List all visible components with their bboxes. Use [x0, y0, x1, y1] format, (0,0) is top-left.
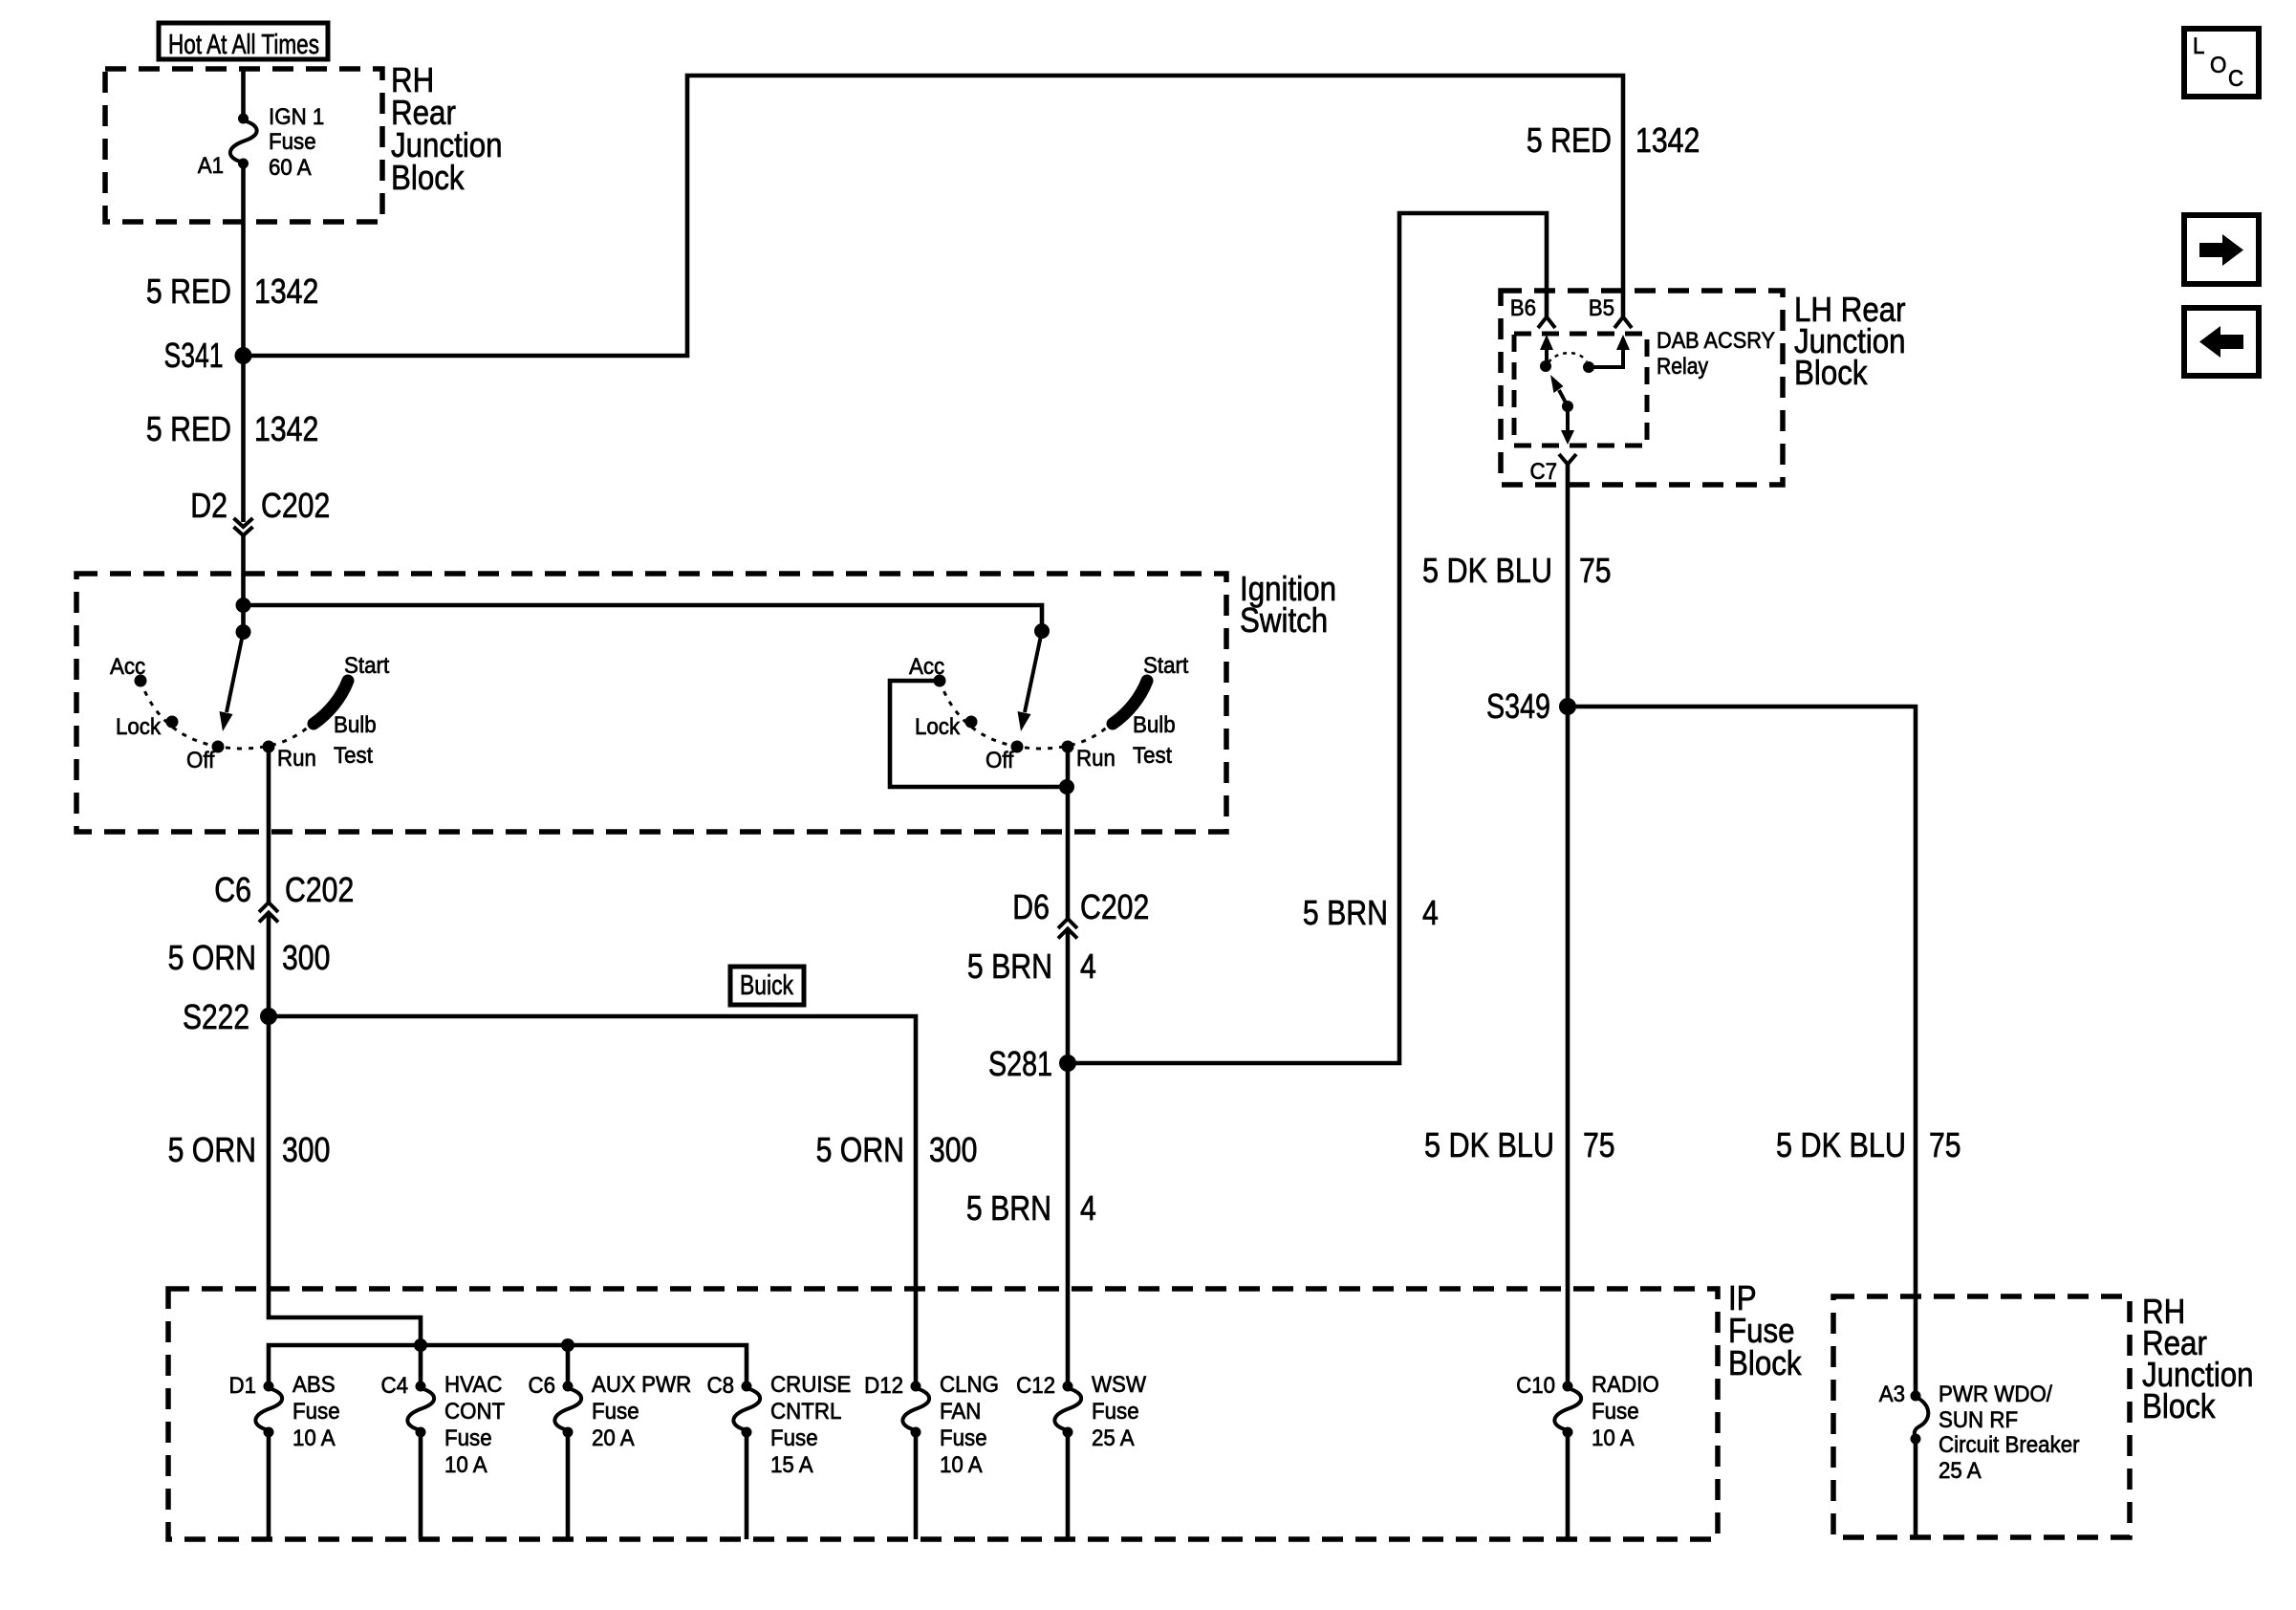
svg-text:10 A: 10 A: [292, 1425, 336, 1451]
svg-text:75: 75: [1583, 1125, 1615, 1164]
fuse C4 HVAC: [381, 1372, 506, 1478]
right switch rotary contact arc: [940, 681, 1116, 749]
wire: S349 down to fuse C10: [1566, 707, 1570, 1386]
svg-text:300: 300: [282, 938, 330, 977]
svg-text:C202: C202: [1080, 887, 1149, 926]
svg-text:4: 4: [1080, 1188, 1096, 1228]
svg-text:ABS: ABS: [292, 1372, 336, 1398]
label 5 DK BLU 75: [1422, 551, 1612, 590]
svg-text:5 DK BLU: 5 DK BLU: [1424, 1125, 1554, 1164]
svg-text:4: 4: [1422, 893, 1439, 932]
wire: battery feed into IGN 1 fuse: [241, 69, 246, 119]
wire: 5 DK BLU 75 from C7 to S349: [1566, 464, 1570, 707]
label 5 BRN 4 (second): [966, 1188, 1096, 1228]
svg-text:CONT: CONT: [444, 1399, 506, 1425]
svg-text:S281: S281: [988, 1044, 1052, 1083]
svg-text:300: 300: [929, 1130, 977, 1169]
left switch contact Acc: [135, 675, 147, 687]
relay NO contact: [1583, 361, 1594, 373]
relay pin arrow B5 into relay: [1616, 335, 1630, 350]
node: Acc/Run junction: [1059, 779, 1074, 794]
svg-text:5 ORN: 5 ORN: [816, 1130, 904, 1169]
relay contact travel arc: [1549, 353, 1587, 362]
svg-text:Circuit Breaker: Circuit Breaker: [1939, 1432, 2080, 1458]
wire: S222 Buick branch to fuse D12: [269, 1016, 916, 1386]
svg-text:Fuse: Fuse: [1592, 1399, 1639, 1425]
svg-text:SUN RF: SUN RF: [1939, 1407, 2018, 1433]
svg-text:Block: Block: [2142, 1386, 2216, 1425]
svg-text:C4: C4: [381, 1373, 409, 1399]
svg-text:CRUISE: CRUISE: [770, 1372, 851, 1398]
svg-text:300: 300: [282, 1130, 330, 1169]
svg-text:10 A: 10 A: [940, 1452, 983, 1478]
left switch contact Run: [263, 741, 275, 753]
svg-text:1342: 1342: [254, 409, 318, 448]
wire: S281 up to relay pin B6: [1068, 213, 1547, 1063]
svg-text:B6: B6: [1510, 295, 1536, 321]
wire: D2 into ignition switch: [241, 535, 246, 632]
svg-text:Test: Test: [334, 743, 373, 769]
node S222: [183, 997, 277, 1036]
svg-text:S222: S222: [183, 997, 249, 1036]
node: left switch wiper pivot: [236, 624, 251, 640]
label 5 DK BLU 75 (second): [1424, 1125, 1615, 1164]
left switch contact Off: [212, 741, 225, 753]
svg-text:5 RED: 5 RED: [1527, 120, 1612, 160]
svg-text:S349: S349: [1486, 686, 1550, 726]
wire: 5 RED 1342 S341 down to connector D2: [241, 356, 246, 522]
svg-text:25 A: 25 A: [1092, 1425, 1135, 1451]
wire: fuse C12 output: [1066, 1432, 1071, 1539]
svg-text:Fuse: Fuse: [444, 1425, 492, 1451]
svg-text:FAN: FAN: [940, 1399, 981, 1425]
svg-text:15 A: 15 A: [770, 1452, 813, 1478]
left switch wiper arrow: [227, 632, 244, 712]
svg-text:1342: 1342: [1635, 120, 1700, 160]
svg-text:CLNG: CLNG: [940, 1372, 999, 1398]
relay output arrow to C7: [1566, 406, 1570, 431]
svg-text:75: 75: [1579, 551, 1612, 590]
fuse feed bus: [269, 1345, 747, 1386]
svg-text:10 A: 10 A: [444, 1452, 487, 1478]
wire: fuse C10 output: [1566, 1432, 1570, 1539]
label 5 DK BLU 75 (right branch): [1776, 1125, 1961, 1164]
fuse IGN 1 60 A (pin A1): [198, 104, 325, 181]
svg-text:Block: Block: [1794, 353, 1868, 392]
relay DAB ACSRY (inner box): [1514, 328, 1775, 446]
label 5 ORN 300 (second): [168, 1130, 331, 1169]
svg-text:Fuse: Fuse: [292, 1399, 340, 1425]
label 5 RED 1342 (top right): [1527, 120, 1700, 160]
wire: 5 RED 1342 fuse A1 down to S341: [241, 163, 246, 356]
right switch wiper arrow: [1025, 631, 1042, 712]
arrow-right icon: [2184, 215, 2259, 284]
svg-text:Start: Start: [344, 653, 390, 679]
svg-text:Lock: Lock: [915, 714, 961, 740]
svg-text:Hot At All Times: Hot At All Times: [168, 30, 319, 60]
svg-text:1342: 1342: [254, 272, 318, 311]
svg-text:D1: D1: [229, 1373, 257, 1399]
label 5 BRN 4: [967, 946, 1096, 986]
svg-text:C6: C6: [529, 1373, 556, 1399]
wire: S222 down into IP fuse block: [269, 1016, 421, 1345]
wire: S349 branch to circuit breaker A3: [1568, 707, 1916, 1396]
svg-text:S341: S341: [164, 336, 224, 375]
wire: left switch Run output down to connector C6: [267, 747, 271, 903]
right switch feed junction: [1034, 623, 1050, 639]
right switch contact Acc: [934, 675, 946, 687]
wire: 5 ORN 300 from C6 to S222: [267, 913, 271, 1016]
svg-text:Run: Run: [1076, 746, 1116, 772]
connector C202 pin D6: [1012, 887, 1149, 939]
wire: fuse C8 output: [745, 1432, 749, 1539]
svg-text:Block: Block: [391, 158, 465, 197]
svg-text:D2: D2: [190, 486, 227, 525]
right switch Start / Bulb Test contact arc: [1113, 681, 1147, 724]
left switch rotary contact arc: [141, 681, 317, 749]
wire: fuse C4 output: [419, 1432, 423, 1539]
svg-text:Test: Test: [1133, 743, 1172, 769]
wire: breaker A3 output: [1914, 1439, 1918, 1537]
Ignition Switch block: [76, 569, 1336, 832]
svg-text:Bulb: Bulb: [1133, 712, 1176, 738]
svg-text:5 BRN: 5 BRN: [1303, 893, 1388, 932]
bus junction at C6: [561, 1338, 574, 1352]
svg-text:D6: D6: [1012, 887, 1050, 926]
connector C202 pin D2: [190, 486, 330, 535]
relay pin arrow B6 into relay: [1540, 335, 1553, 350]
svg-text:Start: Start: [1143, 653, 1189, 679]
IP Fuse Block: [168, 1278, 1802, 1539]
svg-text:C202: C202: [261, 486, 330, 525]
svg-text:PWR WDO/: PWR WDO/: [1939, 1382, 2052, 1407]
svg-text:Lock: Lock: [116, 714, 162, 740]
wire: fuse C6 output: [566, 1432, 571, 1539]
fuse C6 AUX PWR: [529, 1372, 692, 1451]
svg-text:L: L: [2193, 33, 2204, 59]
svg-text:C12: C12: [1016, 1373, 1055, 1399]
svg-text:5 DK BLU: 5 DK BLU: [1776, 1125, 1906, 1164]
fuse C12 WSW: [1016, 1372, 1146, 1451]
fuse C8 CRUISE: [707, 1372, 852, 1478]
svg-text:5 DK BLU: 5 DK BLU: [1422, 551, 1552, 590]
svg-text:HVAC: HVAC: [444, 1372, 502, 1398]
svg-text:4: 4: [1080, 946, 1096, 986]
vehicle tag Buick: [730, 967, 804, 1005]
svg-text:D12: D12: [864, 1373, 903, 1399]
LOC icon: [2184, 29, 2259, 97]
svg-text:Fuse: Fuse: [940, 1425, 987, 1451]
pin C7: [1530, 454, 1577, 485]
label 5 ORN 300: [168, 938, 331, 977]
wire: 5 BRN 4 S281 down to fuse C12: [1066, 1063, 1071, 1386]
svg-text:25 A: 25 A: [1939, 1458, 1982, 1484]
svg-text:5 BRN: 5 BRN: [966, 1188, 1051, 1228]
svg-text:A3: A3: [1879, 1382, 1905, 1407]
arrow-left icon: [2184, 308, 2259, 376]
fuse D1 ABS: [229, 1372, 340, 1451]
svg-text:AUX PWR: AUX PWR: [592, 1372, 691, 1398]
fuse C10 RADIO: [1516, 1372, 1659, 1451]
svg-text:DAB ACSRY: DAB ACSRY: [1657, 328, 1775, 354]
svg-text:CNTRL: CNTRL: [770, 1399, 841, 1425]
label 5 BRN 4 (riser): [1303, 893, 1439, 932]
RH Rear Junction Block (bottom): [1833, 1292, 2254, 1537]
svg-text:C7: C7: [1530, 459, 1558, 485]
right switch contact Run: [1062, 741, 1074, 753]
svg-text:O: O: [2210, 53, 2226, 78]
node S349: [1486, 686, 1576, 726]
power tag: Hot At All Times: [159, 23, 328, 60]
svg-text:5 RED: 5 RED: [146, 409, 231, 448]
svg-text:C10: C10: [1516, 1373, 1555, 1399]
svg-text:75: 75: [1929, 1125, 1961, 1164]
svg-text:Switch: Switch: [1240, 600, 1328, 640]
svg-text:Acc: Acc: [909, 654, 944, 680]
svg-text:Fuse: Fuse: [592, 1399, 639, 1425]
svg-text:20 A: 20 A: [592, 1425, 635, 1451]
svg-text:10 A: 10 A: [1592, 1425, 1635, 1451]
svg-text:5 ORN: 5 ORN: [168, 938, 256, 977]
node: left switch feed junction: [236, 598, 251, 613]
wire: 5 BRN 4 from D6 to S281: [1066, 929, 1071, 1063]
svg-text:C202: C202: [285, 870, 354, 909]
label 5 RED 1342 (second): [146, 409, 318, 448]
svg-text:C6: C6: [214, 870, 251, 909]
svg-text:5 RED: 5 RED: [146, 272, 231, 311]
left switch Start / Bulb Test contact arc: [314, 681, 348, 724]
pin B5: [1589, 295, 1632, 328]
svg-text:IGN 1: IGN 1: [269, 104, 324, 130]
wire: S341 branch up and across top to relay pin B5: [244, 76, 1624, 356]
wire: fuse D1 output: [267, 1432, 271, 1539]
fuse D12 CLNG: [864, 1372, 999, 1478]
wire: right switch Acc loop: [890, 681, 1067, 787]
svg-text:Fuse: Fuse: [770, 1425, 818, 1451]
relay movable arm: [1559, 390, 1568, 406]
svg-text:5 BRN: 5 BRN: [967, 946, 1052, 986]
node S341: [164, 336, 252, 375]
label 5 ORN 300 (Buick branch): [816, 1130, 978, 1169]
connector C202 pin C6: [214, 870, 354, 923]
svg-text:Off: Off: [186, 748, 215, 773]
circuit breaker A3 PWR WDO/SUN RF 25 A: [1879, 1382, 2080, 1484]
svg-text:Buick: Buick: [740, 970, 793, 1001]
svg-text:5 ORN: 5 ORN: [168, 1130, 256, 1169]
svg-text:C: C: [2228, 66, 2243, 92]
svg-text:Fuse: Fuse: [269, 129, 316, 155]
svg-text:Relay: Relay: [1657, 354, 1708, 380]
bus junction at C4: [414, 1338, 427, 1352]
wire: internal feed across to right switch: [244, 605, 1043, 631]
svg-text:Block: Block: [1728, 1343, 1802, 1382]
node S281: [988, 1044, 1076, 1083]
pin B6: [1510, 295, 1555, 328]
svg-text:RADIO: RADIO: [1592, 1372, 1659, 1398]
svg-text:C8: C8: [707, 1373, 735, 1399]
RH Rear Junction Block (top): [105, 60, 503, 222]
left switch contact Lock: [166, 716, 179, 729]
label 5 RED 1342: [146, 272, 318, 311]
right switch contact Off: [1011, 741, 1024, 753]
svg-text:Off: Off: [986, 748, 1014, 773]
svg-text:WSW: WSW: [1092, 1372, 1146, 1398]
relay common contact: [1540, 360, 1551, 372]
svg-text:Acc: Acc: [110, 654, 145, 680]
svg-text:A1: A1: [198, 153, 224, 179]
svg-text:Run: Run: [277, 746, 316, 772]
wire: right switch Run output: [1066, 747, 1071, 919]
svg-text:Fuse: Fuse: [1092, 1399, 1139, 1425]
svg-text:Bulb: Bulb: [334, 712, 377, 738]
right switch contact Lock: [965, 716, 978, 729]
LH Rear Junction Block: [1501, 290, 1906, 485]
svg-text:B5: B5: [1589, 295, 1614, 321]
svg-text:60 A: 60 A: [269, 155, 312, 181]
wire: fuse D12 output: [914, 1432, 919, 1539]
